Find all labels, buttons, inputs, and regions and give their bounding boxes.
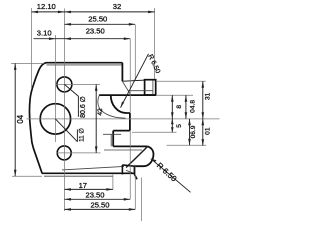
dim row2 y=24.3: 25.50 xyxy=(64,23,135,25)
upper thin knife edge arc xyxy=(98,95,126,118)
dim row3 y=38.7: 3.10 and 23.50 xyxy=(34,38,131,40)
svg-text:04: 04 xyxy=(16,114,25,123)
svg-text:11 ∅: 11 ∅ xyxy=(79,128,86,142)
top circle horizontal centerline xyxy=(56,83,100,85)
big circle xyxy=(40,104,70,134)
extension line x=141.4 xyxy=(140,178,142,222)
lower block xyxy=(122,165,134,174)
tab bevel diagonal xyxy=(123,82,131,95)
svg-text:32: 32 xyxy=(113,2,121,11)
nose right edge xyxy=(129,113,131,131)
bottom dim 17 xyxy=(64,188,112,190)
bottom dim 25.50 xyxy=(64,208,135,210)
svg-text:25.50: 25.50 xyxy=(88,15,107,24)
svg-text:01: 01 xyxy=(205,127,212,135)
tab end block xyxy=(145,80,156,95)
part bottom edge xyxy=(42,173,137,179)
inner thin line above bottom edge (sloped) xyxy=(62,166,124,170)
dim row1 y=11.9: 12.10 and 32 xyxy=(32,11,155,13)
dim 8.40 xyxy=(185,95,187,119)
svg-text:31: 31 xyxy=(205,92,212,100)
horizontal centerline long (dash) xyxy=(27,118,220,120)
tab inner thin line xyxy=(128,90,153,92)
upper R6.50 arc (thick) xyxy=(111,95,126,113)
bottom dim 23.50 xyxy=(64,198,130,200)
bottom circle xyxy=(57,146,71,160)
svg-text:04.8: 04.8 xyxy=(190,100,197,113)
lower step left edge xyxy=(112,131,114,147)
top circle xyxy=(57,77,72,92)
extension line x=135.3 (25.50) xyxy=(134,25,136,81)
label R6.50 upper xyxy=(121,54,149,108)
dim 10 xyxy=(202,119,204,146)
inner thin line under top edge xyxy=(47,64,123,66)
right ext lines xyxy=(157,80,206,82)
nose bevel lines xyxy=(103,133,121,135)
svg-text:17: 17 xyxy=(79,181,87,190)
lower block bevel xyxy=(126,170,133,172)
part outline: left body xyxy=(29,63,122,174)
dim 40 left xyxy=(11,62,44,64)
tab top thin line xyxy=(122,80,144,81)
label dia 11 xyxy=(55,119,77,142)
bottom circle horizontal centerline xyxy=(57,152,101,154)
svg-text:12.10: 12.10 xyxy=(37,2,56,11)
svg-text:5: 5 xyxy=(176,124,183,128)
lower dome arc R6.50 (thick) xyxy=(135,146,154,166)
tab bottom long edge xyxy=(99,94,156,96)
svg-text:06.9: 06.9 xyxy=(190,125,197,138)
svg-text:80.6 ∅: 80.6 ∅ xyxy=(80,96,87,118)
dim 8 xyxy=(171,95,173,119)
nose top connector xyxy=(126,112,131,114)
extension line x=112.9 (17) xyxy=(112,175,114,190)
dim 5 xyxy=(171,119,173,133)
thin bottom edge double line xyxy=(44,175,113,177)
extension line x=130.25 (23.50) xyxy=(129,39,131,113)
extension line x=31.5 (12.10 left) xyxy=(31,8,33,89)
label R6.50 lower xyxy=(151,159,191,193)
svg-text:23.50: 23.50 xyxy=(86,26,105,35)
extension line x=154.6 (32 right) xyxy=(154,8,156,79)
svg-text:42: 42 xyxy=(97,108,104,116)
dim 24 middle xyxy=(95,84,97,152)
svg-text:25.50: 25.50 xyxy=(90,201,109,210)
dim 9.60 xyxy=(189,119,191,146)
svg-text:8: 8 xyxy=(176,105,183,109)
label dia 6.08 xyxy=(64,84,78,96)
nose bottom edge xyxy=(113,130,130,132)
vertical centerline big circle / 3.10 ext xyxy=(54,35,56,142)
tab inner vertical xyxy=(152,81,154,95)
svg-text:23.50: 23.50 xyxy=(85,191,104,200)
vertical centerline through small circles xyxy=(63,9,65,212)
right profile: step down from top edge xyxy=(121,63,123,82)
lower inner knife edge arc xyxy=(126,147,147,168)
dim 13 xyxy=(202,81,204,119)
lower step bottom edge xyxy=(113,145,147,147)
svg-text:3.10: 3.10 xyxy=(37,29,52,38)
